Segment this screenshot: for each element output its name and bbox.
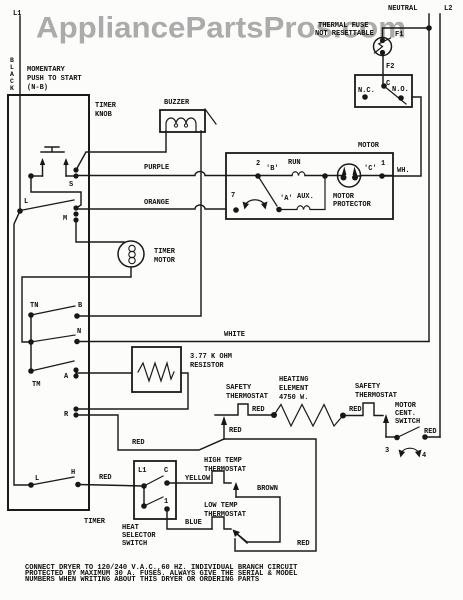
- high temp thermostat symbol: [212, 471, 231, 483]
- node heater left dot: [271, 412, 277, 418]
- svg-text:L: L: [10, 64, 14, 71]
- svg-text:RUN: RUN: [288, 159, 301, 167]
- svg-text:SELECTOR: SELECTOR: [122, 532, 156, 540]
- wire L1 down inside timer: [14, 211, 31, 485]
- wire start-contact to M: [31, 176, 81, 208]
- svg-text:RED: RED: [132, 439, 145, 447]
- svg-text:F1: F1: [395, 31, 403, 39]
- protector contacts: [341, 175, 347, 181]
- wire fuse to door switch F2: [382, 56, 384, 84]
- svg-text:C: C: [10, 78, 14, 85]
- wire WHITE: [77, 341, 429, 343]
- svg-text:MOMENTARY: MOMENTARY: [27, 66, 66, 74]
- wire YELLOW: [167, 482, 212, 484]
- wire L2 vertical: [439, 14, 441, 437]
- svg-text:N.O.: N.O.: [392, 86, 409, 94]
- node N.O. dot: [398, 95, 404, 101]
- svg-text:PURPLE: PURPLE: [144, 164, 169, 172]
- node TM dot: [28, 368, 34, 374]
- wire arrow to contact 3: [386, 436, 394, 438]
- svg-text:M: M: [63, 215, 67, 223]
- switch lever L1-C: [144, 476, 163, 486]
- resistor R1 box: [132, 347, 181, 392]
- svg-text:TIMER: TIMER: [95, 102, 117, 110]
- terminal H dot: [75, 482, 81, 488]
- node terminal 1 dot: [379, 173, 385, 179]
- terminal A dots: [73, 367, 78, 372]
- switch lever to N: [31, 335, 75, 342]
- node 'A' dot: [276, 207, 282, 213]
- svg-text:TM: TM: [32, 381, 40, 389]
- svg-text:HEATING: HEATING: [279, 376, 308, 384]
- node heater right dot: [340, 413, 346, 419]
- wire 4 to L2: [425, 436, 440, 438]
- safety thermostat 2 arrow: [385, 422, 387, 437]
- svg-text:BROWN: BROWN: [257, 485, 278, 493]
- svg-text:L: L: [24, 198, 28, 206]
- buzzer box: [160, 110, 205, 132]
- svg-text:C: C: [164, 467, 168, 475]
- svg-text:RED: RED: [424, 428, 437, 436]
- node lower dot: [141, 503, 147, 509]
- wire resistor to R: [76, 373, 188, 409]
- wire arrow-left to contact: [31, 175, 43, 177]
- svg-text:4: 4: [422, 452, 426, 460]
- switch lever TM-A: [31, 361, 74, 371]
- wire protector to terminal 1: [361, 175, 394, 177]
- svg-text:RED: RED: [229, 427, 242, 435]
- wire fuse to neutral: [383, 28, 430, 38]
- wire ORANGE: [76, 205, 226, 209]
- node neutral junction dot: [426, 25, 432, 31]
- resistor R1 zigzag: [138, 363, 174, 381]
- svg-text:RED: RED: [252, 406, 265, 414]
- motor protector circle: [338, 164, 361, 187]
- wire TN to pivot: [30, 315, 32, 371]
- run winding: [292, 172, 305, 176]
- svg-text:THERMOSTAT: THERMOSTAT: [204, 511, 246, 519]
- svg-text:1: 1: [164, 498, 168, 506]
- wire BROWN: [236, 497, 280, 542]
- svg-text:7: 7: [231, 192, 235, 200]
- svg-text:AUX.: AUX.: [297, 193, 314, 201]
- svg-text:THERMAL FUSE: THERMAL FUSE: [318, 22, 368, 30]
- svg-text:TN: TN: [30, 302, 38, 310]
- svg-text:MOTOR: MOTOR: [395, 402, 417, 410]
- svg-text:YELLOW: YELLOW: [185, 475, 211, 483]
- node 7 dot: [233, 207, 239, 213]
- svg-text:RED: RED: [99, 474, 112, 482]
- svg-text:'A': 'A': [280, 195, 293, 203]
- svg-text:RESISTOR: RESISTOR: [190, 362, 224, 370]
- safety thermostat 1 arrow: [223, 424, 225, 439]
- motor run line: [226, 175, 292, 177]
- svg-text:R: R: [64, 411, 69, 419]
- svg-text:ORANGE: ORANGE: [144, 199, 169, 207]
- svg-text:BUZZER: BUZZER: [164, 99, 190, 107]
- switch lever B-A: [258, 176, 277, 206]
- svg-text:HIGH TEMP: HIGH TEMP: [204, 457, 242, 465]
- svg-text:PROTECTOR: PROTECTOR: [333, 201, 372, 209]
- terminal M dots: [73, 205, 78, 210]
- wire BLUE from 1: [167, 509, 212, 529]
- svg-text:A: A: [10, 71, 14, 78]
- safety thermostat 2 symbol: [343, 403, 383, 416]
- terminal R dots: [73, 406, 78, 411]
- svg-text:LOW TEMP: LOW TEMP: [204, 502, 238, 510]
- wire RED H to selector: [78, 485, 144, 487]
- wire RED from R: [76, 415, 224, 450]
- svg-text:F2: F2: [386, 63, 394, 71]
- svg-text:L1: L1: [138, 467, 146, 475]
- svg-text:HEAT: HEAT: [122, 524, 139, 532]
- svg-text:ELEMENT: ELEMENT: [279, 385, 308, 393]
- wire buzzer left lead to S: [76, 131, 166, 170]
- switch lever L1-1: [144, 497, 163, 506]
- svg-text:WH.: WH.: [397, 167, 410, 175]
- svg-text:SAFETY: SAFETY: [355, 383, 381, 391]
- node 1 dot: [164, 506, 170, 512]
- svg-text:N.C.: N.C.: [358, 87, 375, 95]
- node start contact left: [28, 173, 34, 179]
- door switch box: [355, 75, 412, 107]
- terminal S dots: [73, 167, 78, 172]
- high temp thermostat arrow: [235, 488, 237, 497]
- svg-text:L: L: [35, 475, 39, 483]
- svg-text:KNOB: KNOB: [95, 111, 113, 119]
- svg-text:'C': 'C': [364, 165, 377, 173]
- wire L1 to lower contact: [143, 486, 145, 506]
- svg-text:SAFETY: SAFETY: [226, 384, 252, 392]
- safety thermostat 1 symbol: [215, 404, 274, 415]
- svg-text:L2: L2: [444, 5, 452, 13]
- node contact 4 dot: [422, 434, 428, 440]
- svg-text:S: S: [69, 181, 73, 189]
- switch lever C-N.O.: [384, 86, 406, 104]
- wire NEUTRAL vertical: [428, 14, 430, 341]
- wire A to resistor: [76, 372, 132, 374]
- svg-text:RED: RED: [297, 540, 310, 548]
- svg-text:BLUE: BLUE: [185, 519, 202, 527]
- wire M to timer motor: [76, 220, 124, 242]
- motor travel arc 7-A: [245, 200, 265, 205]
- wire RED lower loop: [224, 439, 316, 551]
- terminal N dot: [74, 339, 80, 345]
- terminal L dot (timer bottom): [28, 482, 34, 488]
- svg-text:MOTOR: MOTOR: [358, 142, 380, 150]
- node aux junction dot: [322, 173, 328, 179]
- wire PURPLE: [76, 172, 226, 176]
- low temp thermostat symbol: [212, 517, 231, 529]
- svg-text:PUSH TO START: PUSH TO START: [27, 75, 82, 83]
- svg-text:RED: RED: [349, 406, 362, 414]
- svg-text:(N-B): (N-B): [27, 84, 48, 92]
- svg-text:SWITCH: SWITCH: [395, 418, 420, 426]
- node L1 dot: [141, 483, 147, 489]
- motor box: [226, 153, 393, 219]
- svg-text:2: 2: [256, 160, 260, 168]
- aux winding: [279, 176, 325, 210]
- push-button actuator: [41, 147, 64, 152]
- wire WH. to door switch: [382, 97, 421, 176]
- svg-text:H: H: [71, 469, 75, 477]
- terminal B dot: [74, 313, 80, 319]
- actuator arrow right: [65, 164, 67, 176]
- switch lever L: [20, 200, 74, 211]
- svg-text:MOTOR: MOTOR: [333, 193, 355, 201]
- heat selector switch box: [134, 461, 176, 519]
- thermal fuse symbol: [374, 38, 392, 56]
- node N.C. dot: [362, 94, 368, 100]
- svg-text:B: B: [78, 302, 83, 310]
- svg-text:3.77 K OHM: 3.77 K OHM: [190, 353, 232, 361]
- node L pivot dot: [17, 208, 23, 214]
- node C dot: [164, 480, 170, 486]
- svg-text:CENT.: CENT.: [395, 410, 416, 418]
- svg-text:4750 W.: 4750 W.: [279, 394, 308, 402]
- wire L1 vertical: [19, 16, 21, 211]
- cent switch travel arc: [401, 448, 419, 453]
- low temp thermostat arrow: [237, 534, 247, 543]
- svg-text:1: 1: [381, 160, 385, 168]
- wire B to buzzer: [77, 131, 201, 316]
- switch lever L-H: [31, 477, 74, 485]
- svg-text:NEUTRAL: NEUTRAL: [388, 5, 417, 13]
- svg-text:WHITE: WHITE: [224, 331, 245, 339]
- actuator arrow left: [42, 164, 44, 176]
- switch lever 3-4: [397, 427, 419, 438]
- svg-text:3: 3: [385, 447, 389, 455]
- svg-text:K: K: [10, 85, 14, 92]
- node contact 3 dot: [394, 435, 400, 441]
- wire arrow-right to S: [66, 175, 73, 177]
- buzzer coil: [166, 118, 196, 132]
- svg-text:THERMOSTAT: THERMOSTAT: [226, 393, 268, 401]
- svg-text:TIMER: TIMER: [154, 248, 176, 256]
- svg-text:NOT RESETTABLE: NOT RESETTABLE: [315, 30, 374, 38]
- node C dot: [381, 83, 387, 89]
- node TN dot: [28, 312, 34, 318]
- svg-text:THERMOSTAT: THERMOSTAT: [355, 392, 397, 400]
- timer box: [8, 95, 89, 510]
- buzzer pointer: [205, 109, 216, 124]
- svg-text:'B': 'B': [266, 165, 279, 173]
- svg-text:SWITCH: SWITCH: [122, 540, 147, 548]
- wire timer motor return: [22, 267, 131, 342]
- svg-text:B: B: [10, 57, 14, 64]
- heating element zigzag: [274, 405, 343, 427]
- node 'B' dot: [255, 173, 261, 179]
- svg-text:A: A: [64, 373, 69, 381]
- svg-text:N: N: [77, 328, 81, 336]
- svg-text:NUMBERS WHEN WRITING ABOUT THI: NUMBERS WHEN WRITING ABOUT THIS DRYER OR…: [25, 576, 260, 584]
- svg-text:TIMER: TIMER: [84, 518, 106, 526]
- node pivot dot: [28, 339, 34, 345]
- timer motor T1: [118, 241, 144, 267]
- svg-text:THERMOSTAT: THERMOSTAT: [204, 466, 246, 474]
- switch lever TN-B: [31, 306, 75, 315]
- svg-text:MOTOR: MOTOR: [154, 257, 176, 265]
